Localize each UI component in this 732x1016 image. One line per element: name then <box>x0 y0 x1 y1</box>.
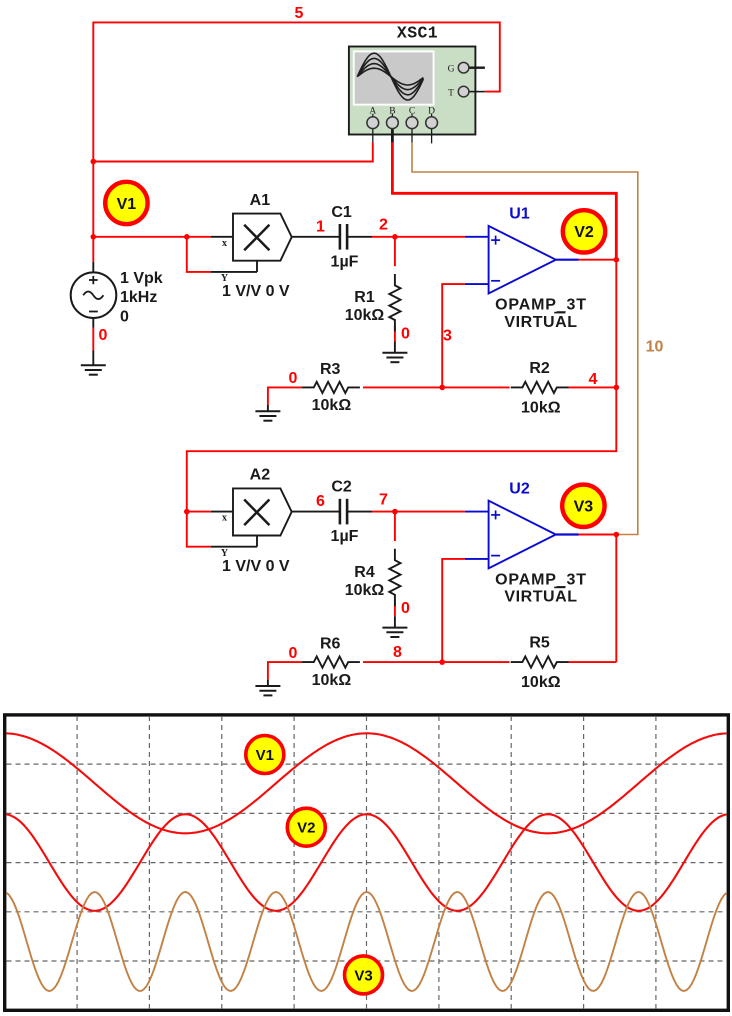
wire ground to R6 (net 0) <box>268 662 302 680</box>
scope screen waveform <box>357 53 423 100</box>
wire U2 output to node V3 <box>579 534 617 536</box>
ground left of R6 <box>255 686 280 695</box>
svg-text:V1: V1 <box>256 747 274 764</box>
plot label V2 <box>287 808 325 846</box>
wire rail to source <box>92 237 94 262</box>
svg-text:2: 2 <box>379 217 388 234</box>
svg-text:1 V/V 0 V: 1 V/V 0 V <box>222 558 290 575</box>
svg-text:A1: A1 <box>250 192 271 209</box>
svg-text:A2: A2 <box>250 467 271 484</box>
wire node 7 left <box>372 511 395 513</box>
wire U1 output to node V2 <box>579 259 617 261</box>
R6 ground pin <box>267 680 269 686</box>
probe V3 <box>562 485 604 527</box>
wire Y feedback loop A1 <box>187 237 211 272</box>
junction net 4 <box>614 385 620 391</box>
junction V2 output <box>614 257 620 263</box>
wire V3 down to R5 <box>615 535 617 663</box>
svg-text:VIRTUAL: VIRTUAL <box>504 314 577 331</box>
svg-text:G: G <box>448 65 455 75</box>
svg-text:8: 8 <box>393 644 402 661</box>
ground below source <box>81 365 106 374</box>
multiplier A2 <box>233 488 292 535</box>
probe V2 <box>563 210 605 252</box>
junction rail/scope A <box>91 159 97 165</box>
capacitor C2 <box>340 499 347 525</box>
svg-text:1 Vpk: 1 Vpk <box>120 270 163 287</box>
plot label V1 <box>246 736 284 774</box>
svg-text:10kΩ: 10kΩ <box>521 674 561 691</box>
U2 - pin stub <box>465 558 489 560</box>
svg-text:0: 0 <box>289 370 298 387</box>
junction node 2 <box>392 234 398 240</box>
C pin stub <box>411 128 413 142</box>
A1 X pin stub <box>211 236 233 238</box>
waveform plot panel <box>5 715 729 1010</box>
plot label V3 <box>345 956 383 994</box>
wire net 3: feedback to U1 - input <box>442 284 465 387</box>
wire node 2 left <box>372 236 395 238</box>
svg-text:10kΩ: 10kΩ <box>345 582 385 599</box>
junction net 8 <box>439 659 445 665</box>
A2 Y pin stub <box>211 546 257 548</box>
wire net 4 to stage 2 input <box>187 387 617 511</box>
svg-text:V3: V3 <box>354 967 372 984</box>
R4 ground pin <box>394 616 396 627</box>
svg-text:1kHz: 1kHz <box>120 289 157 306</box>
C2 right pin stub <box>347 511 372 513</box>
junction rail/source <box>91 234 97 240</box>
A pin stub <box>372 128 374 142</box>
C1 right pin stub <box>347 236 372 238</box>
svg-text:OPAMP_3T: OPAMP_3T <box>495 572 587 589</box>
waveform V3 trace <box>6 892 726 991</box>
svg-text:10kΩ: 10kΩ <box>345 307 385 324</box>
junction net 3 <box>439 385 445 391</box>
U1 - pin stub <box>465 283 489 285</box>
wire R5 to V3 branch <box>568 661 616 663</box>
ground below R1 <box>382 353 407 362</box>
wire node 1: A1 out to C1 <box>292 236 340 238</box>
source ground pin <box>92 351 94 366</box>
svg-text:T: T <box>448 88 454 98</box>
junction node 7 <box>392 509 398 515</box>
svg-text:x: x <box>222 238 227 249</box>
wire scope A to V1 rail <box>93 142 373 161</box>
U2 output pin stub <box>556 533 579 535</box>
resistor R5 <box>511 657 569 668</box>
wire net 8: feedback to U2 - input <box>442 559 465 662</box>
svg-text:1µF: 1µF <box>331 253 359 270</box>
svg-text:0: 0 <box>120 309 129 326</box>
resistor R2 <box>511 382 569 393</box>
waveform V2 trace <box>6 814 726 911</box>
wire node 2 to U1 + input <box>395 236 465 238</box>
svg-text:5: 5 <box>295 5 304 22</box>
svg-text:10kΩ: 10kΩ <box>312 397 352 414</box>
A2 X pin stub <box>211 511 233 513</box>
wire R2 to net 4 <box>568 386 616 388</box>
svg-text:0: 0 <box>99 327 108 344</box>
op-amp U2 <box>489 501 556 569</box>
junction A2 X/Y tap <box>184 509 190 515</box>
wire Y feedback loop A2 <box>187 512 211 547</box>
R3 ground pin <box>267 405 269 411</box>
svg-text:U2: U2 <box>509 481 530 498</box>
svg-text:V3: V3 <box>574 499 594 516</box>
wire scope C to V3 output (tan, net 10) <box>412 142 638 534</box>
svg-text:C1: C1 <box>331 204 352 221</box>
junction V3 output <box>614 532 620 538</box>
capacitor C1 <box>340 224 347 250</box>
plot grid <box>7 716 727 1009</box>
svg-text:10kΩ: 10kΩ <box>312 672 352 689</box>
wire node 7 down to R4 <box>394 512 396 541</box>
svg-text:1µF: 1µF <box>331 528 359 545</box>
svg-text:1 V/V 0 V: 1 V/V 0 V <box>222 283 290 300</box>
wire V1 rail to A1 X input <box>93 236 210 238</box>
U1 output pin stub <box>556 259 579 261</box>
svg-text:C2: C2 <box>331 479 352 496</box>
svg-text:OPAMP_3T: OPAMP_3T <box>495 297 587 314</box>
svg-text:R5: R5 <box>529 635 550 652</box>
probe V1 <box>105 182 147 224</box>
wire V2 down to R2 (net 4) <box>615 260 617 388</box>
junction A1 X/Y tap <box>184 234 190 240</box>
multiplier A1 <box>233 214 292 261</box>
svg-text:R4: R4 <box>354 564 375 581</box>
svg-text:V1: V1 <box>117 196 137 213</box>
svg-text:1: 1 <box>316 218 325 235</box>
svg-text:4: 4 <box>589 371 598 388</box>
svg-text:x: x <box>222 513 227 524</box>
svg-text:7: 7 <box>379 491 388 508</box>
svg-text:6: 6 <box>316 493 325 510</box>
wire R6 to R5 through net 8 <box>363 661 510 663</box>
R1 ground pin <box>394 342 396 353</box>
resistor R4 <box>389 549 400 606</box>
svg-text:V2: V2 <box>297 820 315 837</box>
resistor R1 <box>389 274 400 331</box>
wire ground to R3 (net 0) <box>268 387 302 405</box>
wire R4 to ground net 0 <box>394 600 396 616</box>
T pin stub <box>469 91 485 93</box>
op-amp U1 <box>489 226 556 294</box>
svg-text:10: 10 <box>646 339 664 356</box>
svg-text:U1: U1 <box>509 206 530 223</box>
resistor R3 <box>302 382 360 393</box>
svg-text:10kΩ: 10kΩ <box>521 399 561 416</box>
svg-text:R3: R3 <box>320 361 341 378</box>
wire node 7 to U2 + input <box>395 511 465 513</box>
svg-text:0: 0 <box>401 600 410 617</box>
ground left of R3 <box>255 411 280 420</box>
svg-text:R1: R1 <box>354 289 375 306</box>
wire R3 to R2 through net 3 <box>363 386 510 388</box>
wire source to ground (net 0) <box>92 328 94 351</box>
svg-text:3: 3 <box>443 327 452 344</box>
svg-text:0: 0 <box>289 645 298 662</box>
waveform V1 trace <box>6 733 726 833</box>
G pin stub <box>469 66 485 68</box>
source top pin <box>92 262 94 273</box>
U2 + pin stub <box>465 511 489 513</box>
svg-text:0: 0 <box>401 325 410 342</box>
svg-text:V2: V2 <box>574 224 594 241</box>
B pin stub <box>391 128 394 142</box>
resistor R6 <box>302 657 360 668</box>
U1 + pin stub <box>465 236 489 238</box>
svg-text:VIRTUAL: VIRTUAL <box>504 589 577 606</box>
wire scope B to U1 output <box>392 142 616 259</box>
A1 Y pin stub <box>211 271 257 273</box>
ground below R4 <box>382 628 407 637</box>
svg-text:R2: R2 <box>529 360 550 377</box>
svg-text:XSC1: XSC1 <box>397 23 438 42</box>
svg-text:R6: R6 <box>320 636 341 653</box>
wire node 2 down to R1 <box>394 237 396 266</box>
wire net 5 top: rail to scope T <box>93 22 500 236</box>
D pin stub <box>431 128 433 143</box>
wire R1 to ground net 0 <box>394 325 396 341</box>
wire stage2 input to A2 X <box>187 511 211 513</box>
source bottom pin <box>92 318 94 328</box>
wire node 6: A2 out to C2 <box>292 511 340 513</box>
